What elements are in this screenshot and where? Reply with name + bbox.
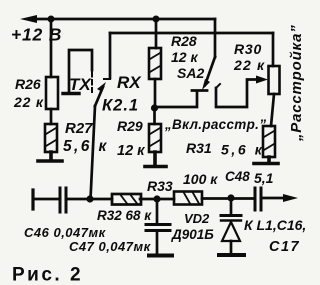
svg-text:„Вкл.расстр.”: „Вкл.расстр.” bbox=[164, 117, 266, 132]
resistor R28 bbox=[149, 48, 161, 79]
svg-text:ТХ: ТХ bbox=[69, 75, 92, 94]
node junction VD2 bbox=[227, 194, 234, 201]
output arrow to L1 C16 C17 bbox=[283, 194, 298, 202]
resistor R32 bbox=[112, 194, 141, 205]
svg-text:Д901Б: Д901Б bbox=[171, 227, 214, 242]
svg-text:К2.1: К2.1 bbox=[102, 97, 139, 115]
wire rail corner down to SA2 lever bbox=[214, 19, 217, 57]
ground under R29 bbox=[145, 152, 166, 167]
node junction C47 bbox=[153, 195, 160, 202]
wire node to C47 bbox=[156, 199, 159, 223]
node junction R28/R29/SA2 bbox=[151, 104, 158, 111]
wire node to SA2 fixed contact bbox=[155, 92, 198, 107]
wire R28 to node bbox=[154, 79, 157, 108]
wire R32 to node bbox=[140, 198, 174, 201]
svg-text:С46 0,047мк: С46 0,047мк bbox=[24, 225, 107, 240]
wire C46 to node bbox=[68, 198, 113, 201]
switch SA2 lever bbox=[202, 57, 215, 90]
mechanical link dashes bbox=[91, 72, 93, 92]
svg-text:22 к: 22 к bbox=[233, 57, 265, 73]
wire C48 to output bbox=[263, 197, 287, 200]
svg-text:VD2: VD2 bbox=[184, 211, 210, 226]
relay K2.1 TX fixed contact bbox=[63, 50, 92, 94]
wire K2.1 common down bbox=[91, 106, 96, 199]
wire R28 feed bbox=[155, 19, 158, 48]
wire terminal to C46 bbox=[33, 198, 58, 201]
R30 wiper arrow and wire to SA2 bbox=[216, 76, 268, 108]
wire C47 to ground bbox=[156, 232, 159, 253]
svg-text:12 к: 12 к bbox=[117, 143, 145, 159]
ground under R31 bbox=[254, 157, 278, 164]
svg-text:RX: RX bbox=[117, 73, 142, 92]
svg-text:R30: R30 bbox=[234, 41, 262, 57]
capacitor C47 bbox=[146, 225, 170, 231]
varicap VD2 bbox=[221, 198, 241, 253]
wire node to R29 bbox=[153, 108, 156, 124]
node junction R26 feed bbox=[48, 16, 55, 23]
RX contact tip bbox=[104, 78, 110, 80]
svg-text:R32 68 к: R32 68 к bbox=[97, 208, 152, 223]
svg-text:5,1: 5,1 bbox=[254, 170, 274, 186]
input terminal bar bbox=[31, 190, 34, 209]
capacitor C46 bbox=[60, 188, 66, 212]
wire +12V rail bbox=[33, 18, 215, 21]
svg-text:R26: R26 bbox=[15, 76, 41, 92]
svg-text:С17: С17 bbox=[269, 239, 300, 255]
svg-text:R31: R31 bbox=[186, 140, 212, 156]
ground under VD2 bbox=[219, 253, 244, 257]
resistor R31 bbox=[263, 126, 275, 157]
svg-text:R33: R33 bbox=[147, 178, 173, 194]
node junction K2.1 common bbox=[86, 195, 93, 202]
relay K2.1 moving lever bbox=[95, 82, 106, 106]
+12V terminal arrow bbox=[20, 15, 37, 23]
wire R26 to R27 bbox=[50, 109, 53, 124]
resistor R26 bbox=[46, 77, 58, 109]
resistor R29 bbox=[149, 124, 161, 152]
capacitor C48 bbox=[255, 188, 261, 210]
wire R30 to R31 bbox=[271, 94, 274, 126]
svg-text:SA2: SA2 bbox=[177, 65, 204, 81]
potentiometer R30 bbox=[269, 66, 280, 94]
wire upper bus bbox=[110, 32, 273, 35]
svg-text:R27: R27 bbox=[65, 120, 93, 137]
resistor R33 bbox=[174, 192, 202, 205]
svg-text:+12 В: +12 В bbox=[11, 25, 62, 45]
node junction R28 feed bbox=[153, 16, 160, 23]
ground under R27 bbox=[38, 152, 62, 161]
SA2 fixed contact bar bbox=[192, 89, 207, 92]
svg-text:R28: R28 bbox=[171, 33, 197, 49]
svg-text:100 к: 100 к bbox=[183, 171, 218, 187]
svg-text:Рис. 2: Рис. 2 bbox=[12, 265, 83, 285]
wire R30 feed bbox=[272, 33, 275, 66]
svg-text:22 к: 22 к bbox=[13, 94, 44, 110]
svg-text:5,6 к: 5,6 к bbox=[63, 138, 109, 155]
wire R26 feed bbox=[50, 19, 53, 77]
wire R33 to VD2 node bbox=[202, 197, 254, 200]
svg-text:С48: С48 bbox=[225, 169, 250, 184]
svg-text:К L1,С16,: К L1,С16, bbox=[244, 217, 306, 233]
svg-text:12 к: 12 к bbox=[171, 49, 198, 65]
svg-text:С47 0,047мк: С47 0,047мк bbox=[69, 239, 152, 254]
resistor R27 bbox=[45, 124, 57, 152]
svg-text:„Расстройка”: „Расстройка” bbox=[288, 24, 305, 142]
ground under C47 bbox=[149, 254, 172, 258]
svg-text:5,6 к: 5,6 к bbox=[221, 142, 264, 158]
svg-text:R29: R29 bbox=[117, 118, 143, 134]
wire RX branch drop bbox=[109, 33, 112, 78]
